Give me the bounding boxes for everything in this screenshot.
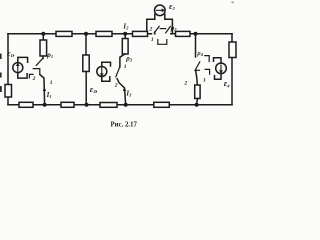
switch K2 pivot stub xyxy=(154,32,156,35)
source E3 lead top staple xyxy=(102,62,111,66)
contact bracket K2 pos1 xyxy=(158,40,167,45)
wire middle branch lower xyxy=(85,72,87,105)
switch K4 blade xyxy=(196,62,200,69)
switch blade K1 xyxy=(36,58,43,65)
wire right edge xyxy=(231,34,233,105)
svg-text:2: 2 xyxy=(183,81,187,87)
resistor bottom L2 xyxy=(61,102,74,107)
svg-text:I1: I1 xyxy=(46,91,52,99)
node dot bottom 4 xyxy=(195,103,199,107)
svg-text:ε4: ε4 xyxy=(224,78,231,88)
svg-text:2: 2 xyxy=(114,82,118,88)
wire top right segment xyxy=(171,33,232,35)
svg-text:ρ1: ρ1 xyxy=(46,51,53,59)
wire E4 branch lower xyxy=(196,99,199,105)
resistor E4 branch xyxy=(195,85,200,99)
source E1 lead top staple xyxy=(18,57,28,62)
wire bottom xyxy=(8,104,232,106)
switch K2 middle dash xyxy=(160,28,166,30)
contact bracket K1 pos2 xyxy=(29,74,33,77)
svg-text:Рис. 2.17: Рис. 2.17 xyxy=(111,122,138,129)
source E4 circle xyxy=(216,63,227,74)
svg-text:ε3,: ε3, xyxy=(90,84,98,94)
source E2 lead left staple xyxy=(147,14,155,33)
switch K2 blade right xyxy=(166,26,171,33)
resistor bottom L3 xyxy=(100,103,117,108)
svg-text:I2: I2 xyxy=(122,22,129,30)
wire E4 branch to resistor xyxy=(196,70,198,85)
wire left edge xyxy=(7,34,9,105)
wire stub below rho1 xyxy=(42,56,44,58)
resistor right edge xyxy=(229,42,236,58)
node dot top 2 xyxy=(84,32,88,36)
node dot bottom 1 xyxy=(43,103,47,107)
source E1 lead bottom staple xyxy=(18,73,27,79)
source E3 lead bottom staple xyxy=(102,76,110,81)
svg-text:2: 2 xyxy=(32,76,36,82)
source E1 arrow xyxy=(17,65,19,71)
source E2 arrow xyxy=(156,9,162,11)
resistor rho3 xyxy=(122,39,128,55)
resistor rho1 xyxy=(40,40,47,56)
node dot top 3 xyxy=(123,32,127,36)
wire stub below rho3 xyxy=(120,54,125,67)
scan artifact edge mark 3 xyxy=(0,86,2,92)
node dot top 1 xyxy=(41,32,45,36)
source E2 lead right staple xyxy=(165,14,173,33)
svg-text:ε2: ε2 xyxy=(169,1,176,11)
svg-text:I3: I3 xyxy=(125,89,132,97)
current I3 arrowhead xyxy=(123,87,126,91)
scan artifact corner tick xyxy=(232,2,234,4)
contact bracket K1 pos1 xyxy=(33,69,40,75)
resistor top A xyxy=(56,31,72,36)
resistor rho2 xyxy=(176,31,191,36)
current I1 arrowhead xyxy=(43,87,46,91)
svg-text:ρ3: ρ3 xyxy=(125,54,133,62)
svg-text:2: 2 xyxy=(149,27,153,33)
resistor top B xyxy=(96,31,112,36)
wire branch rho3 (x=125) xyxy=(124,34,126,39)
source E4 arrow xyxy=(220,65,222,71)
resistor top C xyxy=(133,31,148,36)
resistor bottom L4 xyxy=(154,102,170,107)
resistor bottom L1 xyxy=(19,102,33,107)
switch blade K3 xyxy=(116,67,120,77)
switch K2 blade left xyxy=(154,26,159,33)
source E3 circle xyxy=(97,67,107,77)
source E2 circle xyxy=(155,5,166,16)
resistor middle branch xyxy=(83,55,89,72)
source E4 lead top staple xyxy=(214,58,222,63)
node dot top 4 xyxy=(194,32,198,36)
source E4 lead bottom staple xyxy=(215,74,222,80)
scan artifact edge mark 2 xyxy=(0,73,2,78)
svg-text:ε1,: ε1, xyxy=(7,48,15,58)
scan artifact edge mark 1 xyxy=(0,54,2,60)
svg-text:1: 1 xyxy=(203,78,206,84)
contact bracket K4 bottom xyxy=(205,69,209,74)
node dot bottom 2 xyxy=(85,103,89,107)
svg-text:ρ4: ρ4 xyxy=(196,50,203,57)
svg-text:ρ2: ρ2 xyxy=(170,24,178,32)
source E3 arrowhead down xyxy=(100,73,104,76)
svg-text:1: 1 xyxy=(50,80,53,86)
source E1 circle xyxy=(13,63,23,73)
source E1 arrowhead up xyxy=(16,63,20,66)
wire branch I3 down xyxy=(117,79,126,105)
wire branch R1 (x=43.5) xyxy=(42,34,44,40)
wire branch middle (x=86) xyxy=(85,34,87,55)
wire top left segment xyxy=(8,33,152,35)
pivot tick K4 xyxy=(195,69,199,71)
svg-text:1: 1 xyxy=(124,64,127,70)
node dot bottom 3 xyxy=(124,103,128,107)
source E3 arrow xyxy=(101,68,103,74)
wire branch E4 (x=195.5) xyxy=(195,34,197,57)
resistor left edge xyxy=(5,85,12,98)
contact bracket K4 top xyxy=(205,56,209,62)
svg-text:1: 1 xyxy=(151,37,154,43)
wire branch I1 down xyxy=(40,75,45,105)
